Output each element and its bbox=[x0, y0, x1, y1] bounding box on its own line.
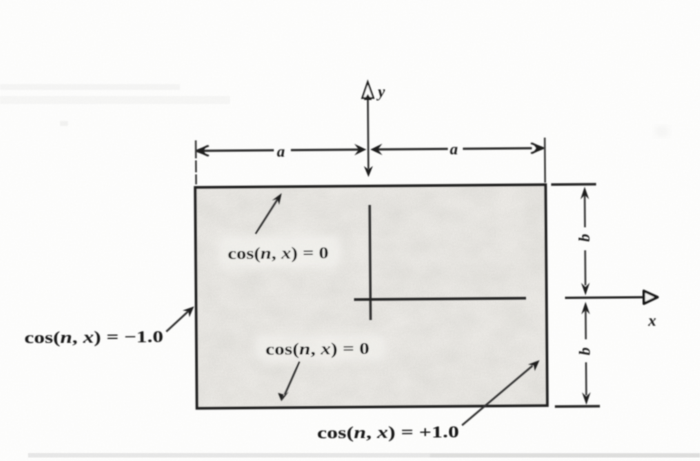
small down arrowhead at bottom of y-axis bbox=[364, 166, 373, 177]
bottom scan bar artifact bbox=[28, 453, 700, 458]
y-axis above plate bbox=[362, 82, 374, 177]
leader arrow for bottom inner label bbox=[278, 362, 300, 402]
rectangular plate (region fill) bbox=[195, 185, 547, 409]
white halo under top inner label bbox=[218, 234, 342, 269]
inner y-axis segment bbox=[368, 205, 371, 320]
y-axis open arrowhead bbox=[362, 82, 373, 98]
arrowhead up to x-axis bbox=[581, 302, 590, 315]
rectangular plate border bbox=[195, 185, 547, 409]
arrowhead down to bottom tick bbox=[582, 392, 591, 405]
arrowhead pointing right into axis bbox=[354, 144, 366, 155]
arrowhead right end bbox=[532, 142, 544, 154]
leader arrow for top label bbox=[255, 193, 282, 234]
extension tick right bbox=[544, 138, 546, 183]
arrowhead pointing left out of axis bbox=[370, 144, 382, 155]
b dimension upper segment bbox=[580, 187, 589, 296]
leader arrow for left label bbox=[166, 306, 194, 331]
b dimension bottom tick bbox=[555, 405, 600, 408]
faint scan streaks top-left bbox=[0, 84, 230, 126]
white halo under bottom inner label bbox=[254, 333, 386, 363]
extension tick left bbox=[195, 140, 197, 184]
x-axis arrow bbox=[565, 291, 658, 305]
b dimension lower segment bbox=[581, 302, 590, 405]
leader arrow for +1.0 label bbox=[462, 360, 541, 425]
arrowhead left end bbox=[196, 145, 208, 157]
arrowhead down to x-axis bbox=[581, 283, 590, 296]
b dimension top tick bbox=[551, 183, 596, 186]
arrowhead up to top tick bbox=[580, 187, 589, 200]
dimension line a (left span) bbox=[196, 144, 367, 157]
inner x-axis segment bbox=[354, 298, 526, 299]
dimension line a (right span) bbox=[370, 142, 544, 155]
